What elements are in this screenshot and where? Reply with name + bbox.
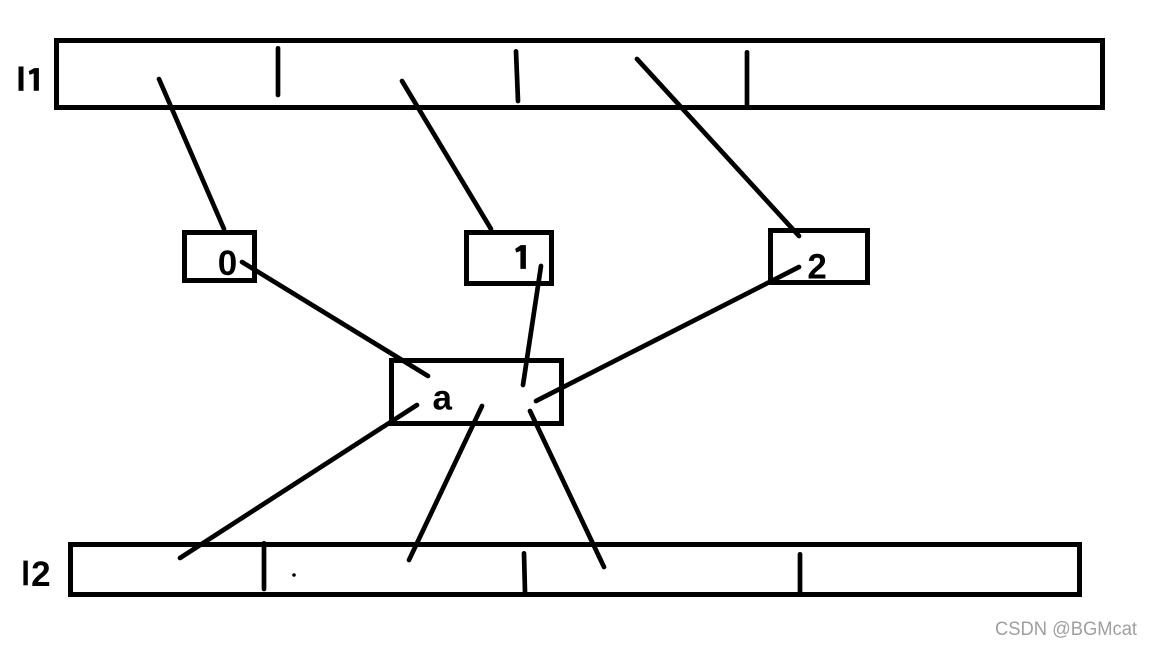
svg-text:0: 0 — [218, 244, 237, 283]
svg-text:CSDN @BGMcat: CSDN @BGMcat — [995, 619, 1138, 640]
svg-text:2: 2 — [31, 555, 50, 594]
svg-text:2: 2 — [807, 247, 826, 286]
svg-text:a: a — [433, 378, 453, 417]
